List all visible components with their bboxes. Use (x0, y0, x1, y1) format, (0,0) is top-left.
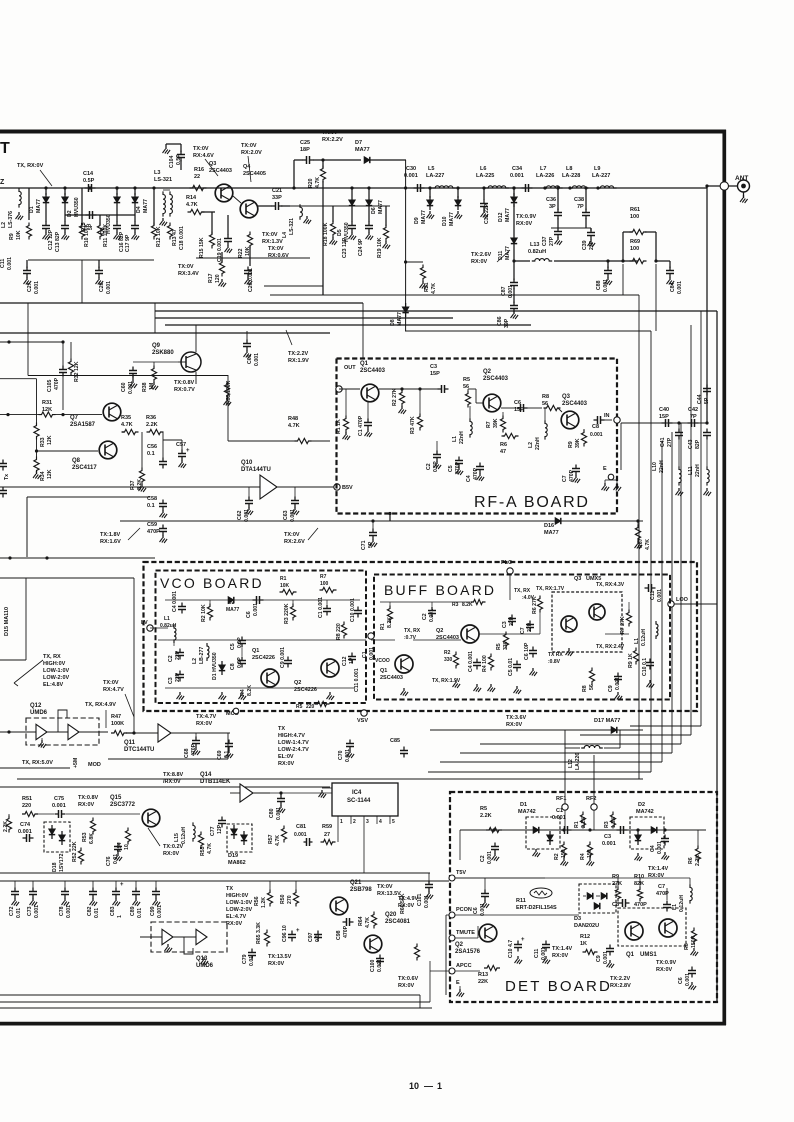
svg-text:4.7K: 4.7K (431, 283, 437, 294)
svg-text:R52 22K: R52 22K (72, 841, 78, 862)
svg-text:82P: 82P (695, 439, 701, 449)
svg-text:L2: L2 (1, 222, 7, 228)
svg-text:HIGH:4.7V: HIGH:4.7V (278, 733, 305, 739)
svg-text:RX:0V: RX:0V (656, 967, 673, 973)
svg-text:C84: C84 (670, 282, 676, 292)
svg-text:LOW-2:4.7V: LOW-2:4.7V (278, 747, 309, 753)
svg-text:2SK880: 2SK880 (152, 350, 174, 356)
svg-text:Q2: Q2 (483, 369, 492, 375)
svg-text:DET BOARD: DET BOARD (505, 978, 612, 995)
svg-text:R14: R14 (186, 195, 197, 201)
svg-text:TX:1.8V: TX:1.8V (100, 532, 121, 538)
svg-text:DTA144TU: DTA144TU (241, 467, 271, 473)
svg-text:0.001: 0.001 (404, 173, 418, 179)
svg-text:12K: 12K (47, 435, 53, 445)
svg-text:D2: D2 (638, 802, 645, 808)
svg-text:0.001: 0.001 (480, 903, 486, 916)
svg-text:470P: 470P (54, 377, 60, 390)
svg-text:3P: 3P (549, 204, 556, 210)
svg-text:0.001: 0.001 (7, 257, 13, 270)
svg-text:1.2K: 1.2K (261, 897, 267, 908)
svg-text:100: 100 (320, 581, 329, 587)
svg-text:TX:0V: TX:0V (193, 146, 209, 152)
svg-text:C12 12P: C12 12P (48, 229, 54, 250)
svg-text:C4: C4 (650, 845, 656, 852)
svg-text:DAN202U: DAN202U (574, 923, 599, 929)
svg-text:0.1: 0.1 (147, 451, 155, 457)
svg-text:0.001: 0.001 (603, 279, 609, 292)
svg-text:TX:0.9V: TX:0.9V (656, 960, 677, 966)
svg-text:LA-227: LA-227 (426, 173, 444, 179)
svg-text:TX, RX:1.7V: TX, RX:1.7V (536, 586, 565, 592)
svg-text:1: 1 (340, 819, 343, 825)
svg-text:22nH: 22nH (459, 431, 465, 444)
svg-text:R2 10K: R2 10K (201, 604, 207, 622)
svg-text:2SB798: 2SB798 (350, 887, 372, 893)
svg-text:470P: 470P (634, 902, 647, 908)
svg-text:C5: C5 (448, 465, 454, 472)
svg-text:2SC4081: 2SC4081 (385, 919, 411, 925)
svg-text:LA-227: LA-227 (592, 173, 610, 179)
svg-text:0.01: 0.01 (16, 908, 22, 918)
svg-text:2SA1576: 2SA1576 (455, 949, 481, 955)
svg-text:2SC4403: 2SC4403 (209, 168, 232, 174)
svg-text:R4: R4 (580, 853, 586, 860)
svg-text:18P: 18P (300, 147, 310, 153)
svg-text:0.1: 0.1 (147, 503, 155, 509)
svg-text:2SC4403: 2SC4403 (380, 675, 403, 681)
svg-text:LA-226: LA-226 (536, 173, 554, 179)
svg-text:39K: 39K (493, 418, 499, 428)
svg-text:C3: C3 (502, 621, 508, 628)
svg-text:UMD6: UMD6 (30, 710, 48, 716)
svg-text:C30: C30 (406, 166, 416, 172)
svg-text:RF2: RF2 (586, 796, 596, 802)
svg-text:8.2K: 8.2K (462, 602, 473, 608)
svg-text:MA742: MA742 (636, 809, 654, 815)
svg-text:C20 0.001: C20 0.001 (248, 268, 254, 292)
svg-text:L7: L7 (540, 166, 546, 172)
svg-text:SC-1144: SC-1144 (347, 798, 371, 804)
svg-text:+: + (521, 937, 525, 943)
svg-text:R13 47: R13 47 (172, 229, 178, 246)
svg-text:C3: C3 (430, 364, 437, 370)
svg-text:Tx: Tx (4, 474, 10, 480)
svg-text:R9: R9 (9, 233, 15, 240)
svg-text:PLO: PLO (501, 560, 513, 566)
svg-text:LS-321: LS-321 (289, 218, 295, 235)
svg-text:L3: L3 (154, 170, 160, 176)
svg-text:R56: R56 (254, 896, 260, 906)
svg-text:MA77: MA77 (505, 208, 511, 222)
svg-text:VCOO: VCOO (375, 658, 390, 664)
svg-text:R1: R1 (380, 623, 386, 630)
svg-text:R7: R7 (486, 421, 492, 428)
svg-text:R21: R21 (424, 282, 430, 292)
svg-text:MA77: MA77 (544, 530, 559, 536)
svg-text:C62: C62 (237, 510, 243, 520)
svg-text:C68: C68 (184, 748, 190, 758)
svg-text:D9: D9 (414, 217, 420, 224)
svg-text:C85: C85 (390, 738, 400, 744)
svg-text:RX:0V: RX:0V (226, 921, 243, 927)
svg-text:C79: C79 (242, 954, 248, 964)
svg-text:R32 12K: R32 12K (74, 361, 80, 382)
svg-text:C1 470P: C1 470P (358, 415, 364, 436)
svg-text:Q15: Q15 (110, 795, 122, 801)
svg-text:R20: R20 (308, 178, 314, 188)
svg-text:TX:0V: TX:0V (262, 232, 278, 238)
svg-text:C11: C11 (534, 949, 540, 958)
svg-text:/RX:0V: /RX:0V (163, 779, 181, 785)
svg-text:0.001: 0.001 (66, 905, 72, 918)
svg-text:L6: L6 (480, 166, 486, 172)
svg-text:C3: C3 (168, 677, 174, 684)
svg-text:VSV: VSV (357, 718, 368, 724)
svg-text:MA742: MA742 (518, 809, 536, 815)
svg-text:330: 330 (444, 657, 453, 663)
svg-text:Q10: Q10 (241, 460, 253, 466)
svg-text:C70: C70 (338, 750, 344, 760)
svg-text:C6: C6 (678, 977, 684, 984)
svg-text:R5: R5 (496, 643, 502, 650)
svg-text:470P: 470P (343, 925, 349, 938)
svg-text:TX:3.6V: TX:3.6V (506, 715, 527, 721)
svg-text:C2: C2 (168, 655, 174, 662)
svg-text:1K: 1K (580, 941, 587, 947)
svg-text:27P: 27P (549, 236, 555, 246)
svg-text:TX, RX: TX, RX (43, 654, 61, 660)
svg-text:C6: C6 (473, 907, 479, 914)
svg-text:EL:4.7V: EL:4.7V (226, 914, 247, 920)
svg-text:R7: R7 (320, 574, 327, 580)
svg-text:1: 1 (117, 915, 123, 918)
svg-text:C75: C75 (54, 796, 64, 802)
svg-text:R6: R6 (500, 442, 507, 448)
svg-text:LA-228: LA-228 (562, 173, 580, 179)
svg-text:C77: C77 (210, 826, 216, 836)
svg-text:UMD6: UMD6 (196, 963, 214, 969)
svg-text:Q13: Q13 (196, 956, 208, 962)
svg-text:TX:2.2V: TX:2.2V (288, 351, 309, 357)
svg-text:R35: R35 (121, 415, 131, 421)
svg-text:R11 100K: R11 100K (103, 224, 109, 247)
svg-text:R22: R22 (238, 248, 244, 258)
svg-text:RX:0V: RX:0V (163, 851, 180, 857)
svg-text:TX:2.2V: TX:2.2V (610, 976, 631, 982)
svg-text:C5: C5 (230, 643, 236, 650)
svg-text:D18: D18 (52, 862, 58, 872)
svg-text:C9: C9 (608, 685, 614, 692)
svg-text:R6: R6 (688, 857, 694, 864)
svg-text:C83: C83 (110, 906, 116, 916)
svg-text:RX:0V: RX:0V (398, 903, 415, 909)
svg-text:22nH: 22nH (695, 464, 701, 477)
svg-text:TX:8.8V: TX:8.8V (163, 772, 184, 778)
svg-text:L13: L13 (530, 242, 539, 248)
svg-text:APCC: APCC (456, 963, 472, 969)
svg-text:Q14: Q14 (200, 772, 212, 778)
svg-text:R12: R12 (580, 934, 590, 940)
svg-text:MA77: MA77 (421, 210, 427, 224)
svg-text:RX:1.6V: RX:1.6V (100, 539, 121, 545)
svg-text:L9: L9 (594, 166, 600, 172)
svg-text:D7: D7 (355, 140, 362, 146)
svg-text:2: 2 (353, 819, 356, 825)
svg-text:EL:4.8V: EL:4.8V (43, 682, 64, 688)
svg-text:R10: R10 (634, 874, 644, 880)
svg-text:R19 10K: R19 10K (377, 237, 383, 258)
svg-text:220: 220 (306, 704, 315, 710)
svg-text:LA-225: LA-225 (476, 173, 494, 179)
svg-text:Q1: Q1 (626, 952, 635, 958)
svg-text:C80: C80 (269, 808, 275, 818)
svg-text:0.001: 0.001 (602, 841, 616, 847)
svg-text:TX:0.9V: TX:0.9V (516, 214, 537, 220)
svg-text:R50: R50 (280, 894, 286, 904)
svg-text:D16: D16 (544, 523, 554, 529)
svg-text:Q21: Q21 (350, 880, 362, 886)
svg-text:C76: C76 (106, 856, 112, 866)
svg-text:0.001: 0.001 (52, 803, 66, 809)
svg-text:R2: R2 (554, 853, 560, 860)
svg-text:0.001: 0.001 (157, 905, 163, 918)
svg-text:D12: D12 (498, 212, 504, 222)
svg-text:L5: L5 (428, 166, 434, 172)
svg-text:C60: C60 (121, 382, 127, 392)
svg-text:R2: R2 (444, 650, 451, 656)
svg-text:RX:0.7V: RX:0.7V (174, 387, 195, 393)
svg-text:ERT-D2FIL154S: ERT-D2FIL154S (516, 905, 557, 911)
svg-text:0.001: 0.001 (552, 815, 566, 821)
svg-text:L1: L1 (672, 904, 678, 910)
svg-text:R13: R13 (478, 972, 488, 978)
svg-text:0.001: 0.001 (677, 281, 683, 294)
svg-text:100: 100 (630, 214, 639, 220)
svg-text:0.01: 0.01 (113, 854, 119, 864)
svg-text:C32 22P: C32 22P (484, 203, 490, 224)
svg-text:220: 220 (22, 803, 31, 809)
svg-text:C24 9P: C24 9P (358, 238, 364, 256)
svg-text:C10 4.7: C10 4.7 (508, 940, 514, 958)
svg-text:RF1: RF1 (556, 796, 566, 802)
svg-text:UMS1: UMS1 (640, 952, 657, 958)
svg-text:D1: D1 (520, 802, 527, 808)
svg-text:D17 MA77: D17 MA77 (594, 718, 620, 724)
svg-text:82K: 82K (634, 881, 644, 887)
svg-text:+: + (296, 928, 300, 934)
svg-text:5P: 5P (368, 541, 374, 548)
svg-text:R2 27K: R2 27K (392, 388, 398, 406)
svg-text::4.0V: :4.0V (522, 595, 535, 601)
svg-text:2SC4405: 2SC4405 (243, 171, 266, 177)
svg-text:RX:4.7V: RX:4.7V (103, 687, 124, 693)
svg-text:2SC3772: 2SC3772 (110, 802, 136, 808)
svg-text:TX:1.4V: TX:1.4V (648, 866, 669, 872)
svg-text:2SC4403: 2SC4403 (360, 368, 386, 374)
svg-text:0.5P: 0.5P (176, 154, 182, 165)
svg-text:0.001: 0.001 (128, 381, 134, 394)
svg-text:C63: C63 (283, 510, 289, 520)
svg-text:2SC4403: 2SC4403 (483, 376, 509, 382)
svg-text:TX:4.7V: TX:4.7V (196, 714, 217, 720)
svg-text:R8: R8 (542, 394, 549, 400)
svg-text:0.001: 0.001 (487, 851, 493, 864)
svg-text:C11: C11 (0, 259, 6, 268)
svg-text:+: + (186, 448, 190, 454)
svg-text:LS-321: LS-321 (154, 177, 172, 183)
svg-text:R31: R31 (42, 400, 52, 406)
svg-text:E: E (456, 980, 460, 986)
svg-text:MA862: MA862 (228, 860, 246, 866)
svg-text:MA77: MA77 (449, 212, 455, 226)
svg-text:C61: C61 (247, 354, 253, 364)
svg-text:R3 47K: R3 47K (410, 416, 416, 434)
svg-text:10K: 10K (16, 230, 22, 240)
svg-text:RX:0V: RX:0V (78, 802, 95, 808)
svg-text:HIGH:0V: HIGH:0V (43, 661, 66, 667)
svg-text:LOW-2:0V: LOW-2:0V (226, 907, 252, 913)
svg-text:C71: C71 (361, 540, 367, 550)
svg-text:47: 47 (500, 449, 506, 455)
svg-text:OUT: OUT (344, 365, 356, 371)
svg-text:0.001: 0.001 (294, 832, 307, 838)
svg-text:C89: C89 (130, 906, 136, 916)
svg-text:Q3: Q3 (574, 576, 581, 582)
svg-text:12P: 12P (217, 824, 223, 834)
svg-text:VCO BOARD: VCO BOARD (160, 575, 264, 591)
svg-text:LOW-1:0V: LOW-1:0V (226, 900, 252, 906)
svg-text:0.12uH: 0.12uH (181, 827, 187, 844)
svg-text:470P: 470P (191, 743, 197, 756)
svg-text:4.7K: 4.7K (288, 423, 300, 429)
svg-text:C78: C78 (59, 906, 65, 916)
svg-text:D5: D5 (337, 229, 343, 236)
svg-text:TX: TX (226, 886, 233, 892)
svg-text:R15 15K: R15 15K (199, 237, 205, 258)
svg-text:C28: C28 (99, 282, 105, 292)
svg-text:0.001: 0.001 (424, 895, 430, 908)
svg-text:C72: C72 (9, 906, 15, 916)
svg-text:C88: C88 (596, 280, 602, 290)
svg-text:Q2: Q2 (455, 942, 464, 948)
svg-text:R4 100: R4 100 (482, 655, 488, 672)
svg-text:DTB114EK: DTB114EK (200, 779, 231, 785)
svg-text:C96 10: C96 10 (282, 925, 288, 942)
svg-text:R59: R59 (322, 824, 332, 830)
svg-text:TX:0V: TX:0V (284, 532, 300, 538)
svg-text:L10: L10 (652, 462, 658, 471)
svg-text:L15: L15 (174, 833, 180, 842)
svg-text:RX:1.9V: RX:1.9V (288, 358, 309, 364)
svg-text:C36: C36 (546, 197, 556, 203)
svg-text:MA77: MA77 (378, 200, 384, 214)
svg-text:RX:0V: RX:0V (648, 873, 665, 879)
svg-text:C2: C2 (426, 463, 432, 470)
svg-text:C2: C2 (422, 613, 428, 620)
svg-text:Q1: Q1 (252, 648, 259, 654)
svg-text:TX:0.8V: TX:0.8V (78, 795, 99, 801)
svg-text:D4: D4 (136, 206, 142, 213)
svg-text:E: E (603, 466, 607, 472)
svg-text:D19: D19 (228, 853, 238, 859)
svg-text:15P: 15P (659, 414, 669, 420)
svg-text:TX, RX:4.3V: TX, RX:4.3V (596, 582, 625, 588)
svg-text:0.001: 0.001 (34, 905, 40, 918)
svg-text:C39: C39 (582, 240, 588, 250)
svg-text:L8: L8 (566, 166, 572, 172)
svg-text:R18 100K: R18 100K (323, 222, 329, 246)
svg-text:R48: R48 (288, 416, 298, 422)
svg-text:+: + (120, 882, 124, 888)
svg-text:RX:3.4V: RX:3.4V (178, 271, 199, 277)
svg-text:RF-A BOARD: RF-A BOARD (474, 494, 590, 511)
svg-text:C87: C87 (501, 286, 507, 296)
svg-text:C1: C1 (556, 808, 563, 814)
svg-text:MA77: MA77 (505, 246, 511, 260)
svg-text:2.2K: 2.2K (480, 813, 492, 819)
svg-text:C41: C41 (660, 437, 666, 447)
svg-text:C13 82P: C13 82P (55, 231, 61, 252)
svg-text:Q1: Q1 (380, 668, 387, 674)
svg-text:Q1: Q1 (360, 361, 369, 367)
svg-text:TMUTE: TMUTE (456, 930, 475, 936)
svg-text:RX:0V: RX:0V (196, 721, 213, 727)
svg-text:C8: C8 (230, 663, 236, 670)
svg-text:IC4: IC4 (352, 790, 362, 796)
svg-text:10: 10 (124, 844, 130, 850)
svg-text:C100: C100 (370, 959, 376, 972)
svg-text:L12: L12 (568, 759, 574, 768)
svg-text:TX:4.9V: TX:4.9V (398, 896, 419, 902)
svg-text:0.001: 0.001 (508, 285, 514, 298)
svg-text:39P: 39P (504, 318, 510, 328)
svg-text:12K: 12K (47, 469, 53, 479)
svg-text:22nH: 22nH (535, 437, 541, 450)
svg-text:MA77: MA77 (226, 607, 240, 613)
svg-text:Q20: Q20 (385, 912, 397, 918)
svg-text:TX:2.6V: TX:2.6V (471, 252, 492, 258)
svg-text:TX:0V: TX:0V (103, 680, 119, 686)
svg-text:0.12uH: 0.12uH (679, 895, 685, 912)
svg-text:1M: 1M (149, 383, 155, 390)
svg-text:D3: D3 (574, 916, 581, 922)
svg-text:B5V: B5V (342, 485, 353, 491)
svg-text:C74: C74 (20, 822, 31, 828)
svg-text:R8: R8 (684, 943, 690, 950)
svg-text:10K: 10K (280, 583, 290, 589)
svg-text:C14: C14 (83, 171, 94, 177)
svg-text:C97: C97 (308, 932, 314, 942)
svg-text:C59: C59 (147, 522, 157, 528)
svg-text:R51: R51 (22, 796, 32, 802)
svg-text:R17: R17 (208, 273, 214, 283)
svg-text:120: 120 (215, 274, 221, 283)
svg-text:IN: IN (604, 413, 610, 419)
svg-text:R38: R38 (142, 382, 148, 392)
svg-text:C105: C105 (47, 379, 53, 392)
svg-text:TX:0V: TX:0V (178, 264, 194, 270)
svg-text:0.001: 0.001 (657, 589, 663, 602)
svg-text:R9: R9 (612, 874, 619, 880)
svg-text:Q2: Q2 (294, 680, 301, 686)
svg-text:C57: C57 (176, 442, 186, 448)
svg-text:TX:13.5V: TX:13.5V (268, 954, 292, 960)
svg-text:0.001: 0.001 (254, 353, 260, 366)
svg-text:TX, RX:4.9V: TX, RX:4.9V (85, 702, 116, 708)
svg-text:4.7K: 4.7K (186, 202, 198, 208)
svg-text:C56: C56 (147, 444, 157, 450)
